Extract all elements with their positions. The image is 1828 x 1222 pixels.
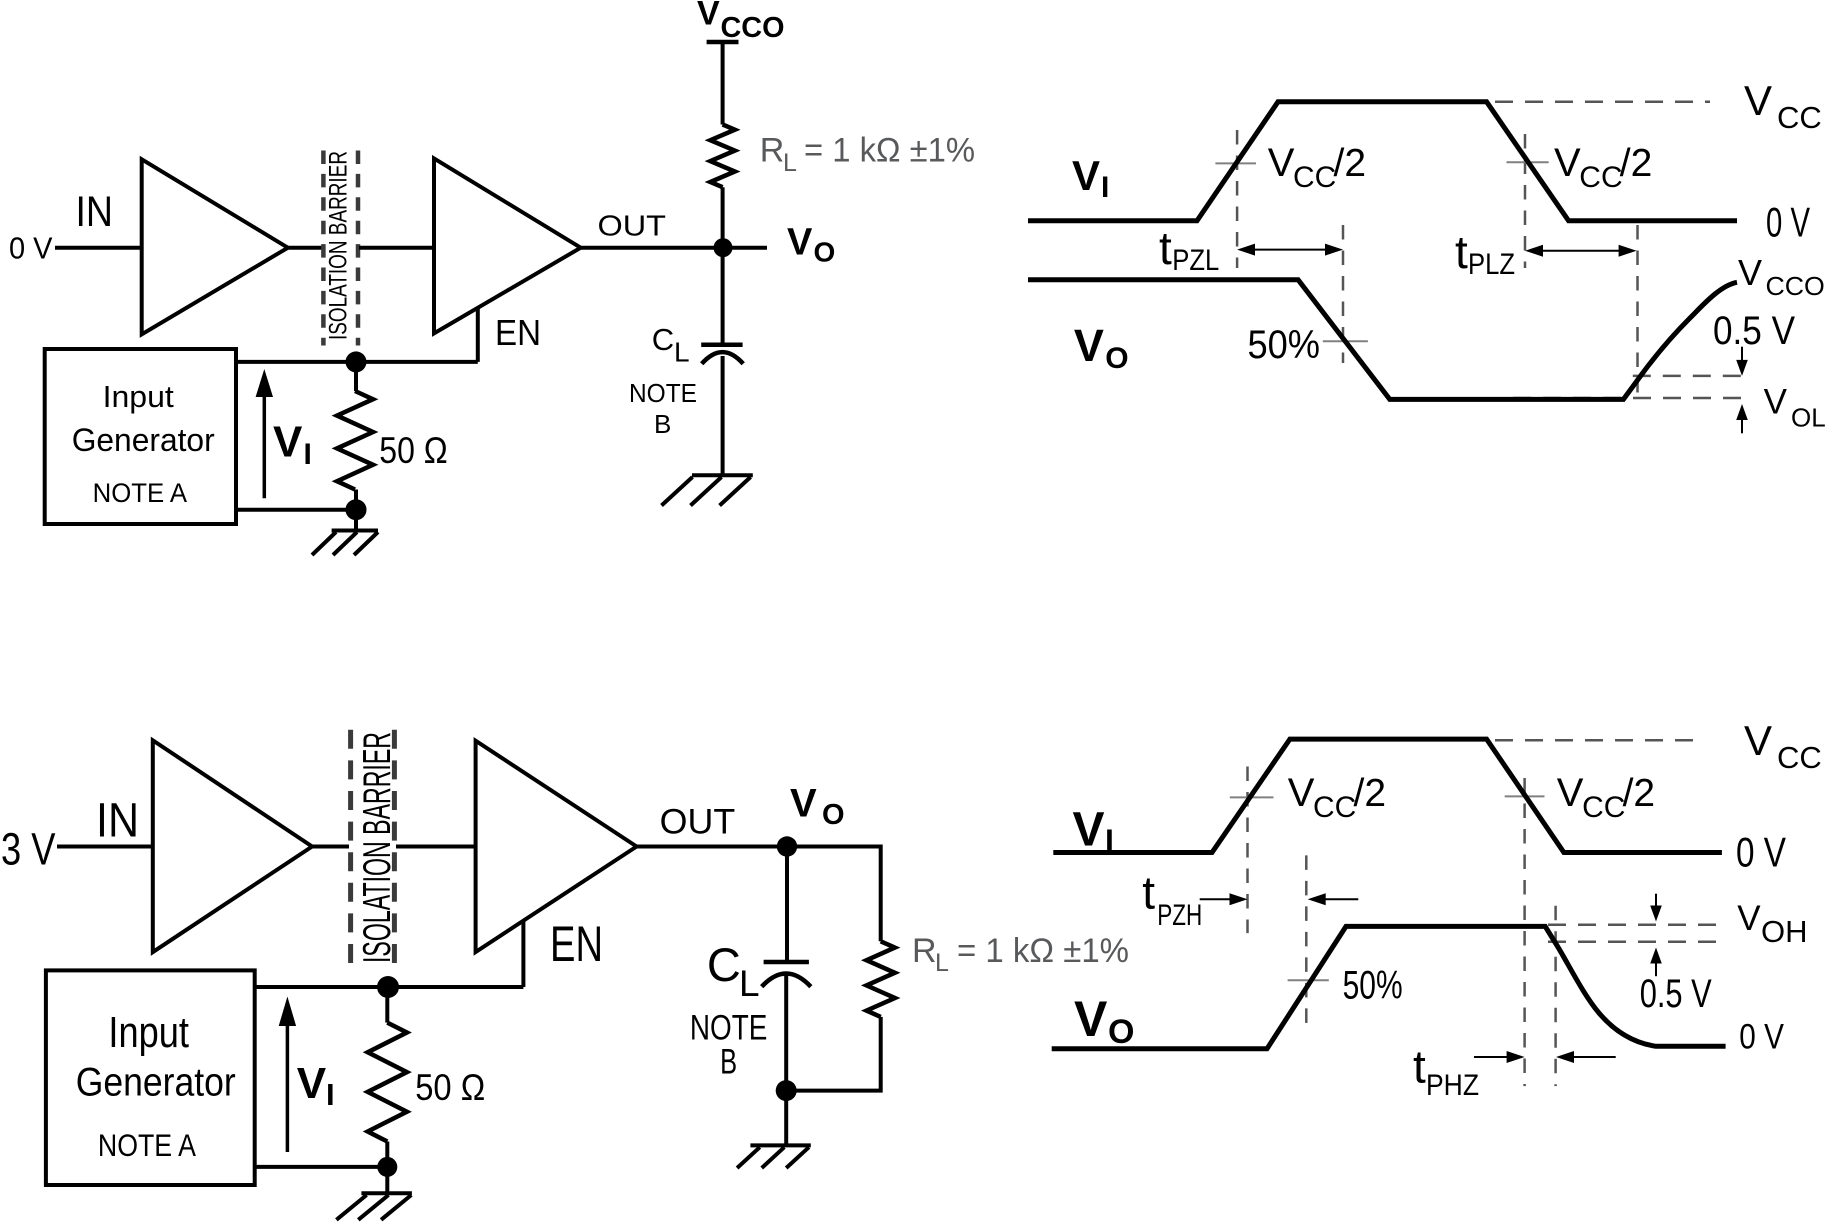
svg-text:V: V: [1268, 141, 1295, 185]
svg-text:CC: CC: [1293, 161, 1336, 194]
svg-text:B: B: [654, 409, 671, 439]
svg-text:O: O: [822, 799, 845, 831]
svg-text:PZL: PZL: [1172, 244, 1219, 277]
svg-text:/2: /2: [1334, 142, 1367, 185]
power symbol VCCO: [707, 40, 739, 45]
VI arrow: [286, 1020, 290, 1152]
tick VCC/2 falling (bottom): [1505, 795, 1545, 797]
svg-text:0.5 V: 0.5 V: [1640, 972, 1712, 1016]
pin EN stub of U2: [476, 308, 480, 362]
svg-text:IN: IN: [96, 795, 139, 848]
dashed vertical at VI falling VCC/2 (bottom): [1523, 778, 1526, 1086]
arrow VOL up (top): [1741, 414, 1743, 433]
dashed vertical at VI rising VCC/2 (top): [1236, 130, 1239, 268]
isolation barrier right dashed line: [392, 730, 397, 966]
junction dot ground node: [346, 499, 367, 520]
arrow tPZH right: [1200, 898, 1239, 900]
wire EN junction to 50 ohm resistor: [354, 362, 358, 391]
svg-text:C: C: [707, 938, 741, 991]
svg-text:CC: CC: [1313, 791, 1356, 824]
svg-text:R: R: [760, 132, 785, 170]
resistor RL (bottom circuit): [867, 941, 895, 1017]
tick 50% (top): [1323, 340, 1368, 342]
arrow 0.5V down (top): [1741, 347, 1743, 366]
arrow tPHZ left: [1565, 1056, 1616, 1058]
svg-text:CC: CC: [1579, 161, 1622, 194]
resistor 50 ohm (top circuit): [337, 391, 373, 490]
svg-text:PHZ: PHZ: [1426, 1069, 1479, 1102]
wire input 3V to buffer: [57, 845, 153, 849]
ground under CL: [662, 475, 753, 505]
svg-text:Input: Input: [103, 380, 175, 414]
svg-text:= 1 kΩ ±1%: = 1 kΩ ±1%: [804, 132, 975, 170]
dashed vertical at VO rising 50% (bottom): [1305, 855, 1308, 1025]
svg-text:V: V: [1072, 152, 1100, 199]
buffer U4: [476, 741, 637, 952]
capacitor CL top plate: [764, 960, 809, 965]
buffer U3: [153, 740, 312, 952]
dashed level line VOH-0.5V (bottom): [1548, 941, 1723, 944]
wire generator bottom to ground node: [255, 1165, 388, 1169]
wire ground node to ground: [385, 1167, 389, 1193]
pin EN stub of U4: [521, 921, 525, 987]
svg-text:OUT: OUT: [660, 803, 736, 842]
wire resistor RL to node VO: [721, 187, 725, 248]
wire bottom node to ground: [784, 1091, 788, 1146]
svg-text:V: V: [1074, 320, 1104, 371]
resistor RL (top circuit): [710, 125, 735, 188]
svg-text:O: O: [1105, 342, 1128, 375]
wire resistor RL to bottom node: [786, 1017, 881, 1091]
svg-text:50%: 50%: [1343, 964, 1403, 1008]
svg-text:/2: /2: [1623, 772, 1656, 815]
dashed vertical at VO rising end (top): [1636, 225, 1639, 399]
arrow tPZL double: [1247, 249, 1333, 251]
wire ground node to ground: [354, 510, 358, 531]
wire capacitor CL to ground: [721, 356, 725, 475]
junction dot EN node: [346, 351, 367, 372]
ground under 50 ohm (bottom circuit): [336, 1193, 412, 1220]
svg-text:OH: OH: [1761, 914, 1808, 949]
ground under 50 ohm: [312, 531, 378, 556]
svg-text:V: V: [1737, 899, 1761, 938]
svg-text:Input: Input: [108, 1009, 188, 1057]
wire U1 output to isolation barrier: [288, 246, 322, 250]
svg-text:t: t: [1413, 1041, 1426, 1093]
VI arrow: [263, 390, 267, 498]
svg-text:NOTE: NOTE: [629, 378, 697, 408]
tick VCC/2 falling (top): [1507, 161, 1549, 163]
svg-text:0 V: 0 V: [9, 230, 53, 265]
svg-text:V: V: [1073, 804, 1105, 857]
svg-text:CC: CC: [1777, 740, 1822, 775]
wire node VO down to capacitor CL: [785, 847, 789, 963]
wire EN junction to 50 ohm resistor: [385, 987, 389, 1023]
node VO junction dot: [714, 238, 733, 257]
svg-text:0 V: 0 V: [1739, 1017, 1784, 1056]
ground under CL (bottom circuit): [737, 1145, 811, 1168]
svg-text:/2: /2: [1354, 772, 1387, 815]
svg-text:V: V: [1764, 383, 1788, 422]
waveform VO trace (top): [1028, 280, 1737, 400]
arrow VOH-0.5V up (bottom): [1655, 958, 1657, 976]
svg-text:0 V: 0 V: [1736, 829, 1786, 876]
waveform VO trace (bottom): [1052, 926, 1726, 1048]
svg-text:I: I: [1105, 823, 1114, 859]
svg-text:CCO: CCO: [1766, 271, 1825, 301]
dashed level line VCC (bottom): [1495, 739, 1705, 742]
svg-text:V: V: [697, 0, 720, 33]
isolation barrier left dashed line: [348, 730, 353, 966]
wire 50 ohm resistor to ground node: [385, 1142, 389, 1167]
dashed level line 0.5V above VOL (top): [1633, 375, 1746, 378]
svg-text:V: V: [1074, 991, 1108, 1047]
junction dot bottom node: [776, 1080, 797, 1101]
svg-text:L: L: [783, 149, 797, 177]
svg-text:O: O: [814, 237, 836, 268]
junction dot ground node: [377, 1157, 397, 1177]
svg-text:L: L: [674, 337, 690, 368]
svg-text:V: V: [787, 222, 813, 264]
waveform VI trace (top): [1028, 102, 1737, 221]
dashed vertical at VO falling VOH-0.5V (bottom): [1554, 906, 1557, 1086]
input generator box: [45, 349, 236, 524]
svg-text:V: V: [1557, 771, 1584, 815]
buffer U1: [142, 159, 288, 334]
wire input 0V to buffer: [55, 246, 142, 250]
wire generator to EN junction: [255, 985, 524, 989]
wire generator bottom to ground node: [236, 508, 356, 512]
svg-text:V: V: [297, 1059, 327, 1108]
svg-text:I: I: [1101, 171, 1109, 204]
svg-text:V: V: [273, 418, 303, 467]
wire U3 output to isolation barrier: [312, 845, 349, 849]
svg-text:C: C: [652, 322, 674, 357]
svg-text:PLZ: PLZ: [1468, 248, 1515, 281]
svg-text:3 V: 3 V: [1, 824, 56, 875]
svg-text:V: V: [1738, 252, 1762, 293]
svg-text:0.5 V: 0.5 V: [1713, 309, 1795, 353]
svg-text:V: V: [1744, 717, 1772, 764]
wire U4 output to node VO: [637, 845, 881, 849]
svg-text:R: R: [912, 932, 937, 970]
svg-text:V: V: [1554, 141, 1581, 185]
junction dot EN node: [377, 976, 399, 998]
svg-text:PZH: PZH: [1157, 899, 1202, 932]
wire isolation barrier to buffer U4: [396, 845, 476, 849]
svg-text:50 Ω: 50 Ω: [415, 1067, 485, 1108]
node VO junction dot: [777, 836, 797, 856]
wire U2 output to node VO: [581, 246, 767, 250]
svg-text:V: V: [1744, 77, 1772, 124]
wire isolation barrier to buffer U2: [359, 246, 434, 250]
svg-text:EN: EN: [495, 312, 541, 353]
wire node VO right to resistor RL: [879, 845, 883, 942]
tick VCC/2 rising (bottom): [1230, 796, 1274, 798]
svg-text:V: V: [790, 782, 817, 826]
svg-text:ISOLATION BARRIER: ISOLATION BARRIER: [325, 151, 353, 340]
capacitor CL curved plate: [762, 974, 811, 987]
dashed level line VCC (top): [1495, 101, 1710, 104]
svg-text:Generator: Generator: [72, 422, 215, 458]
svg-text:IN: IN: [76, 188, 114, 236]
arrow tPZH left: [1317, 898, 1358, 900]
arrow tPHZ right: [1474, 1056, 1516, 1058]
capacitor CL curved plate: [702, 352, 744, 364]
svg-text:/2: /2: [1620, 142, 1653, 185]
svg-text:Generator: Generator: [76, 1060, 236, 1104]
svg-text:0 V: 0 V: [1766, 199, 1810, 246]
wire capacitor CL to bottom node: [784, 975, 788, 1091]
svg-text:I: I: [304, 438, 312, 471]
svg-text:CC: CC: [1582, 791, 1625, 824]
input generator box: [46, 970, 255, 1185]
svg-text:ISOLATION BARRIER: ISOLATION BARRIER: [356, 732, 399, 963]
isolation barrier left dashed line: [321, 151, 326, 346]
arrow VOH down (bottom): [1655, 894, 1657, 912]
buffer U2: [434, 158, 581, 333]
dashed vertical at VO falling 50% (top): [1342, 225, 1345, 363]
svg-text:t: t: [1455, 226, 1468, 278]
svg-text:B: B: [720, 1043, 737, 1082]
waveform VI trace (bottom): [1053, 739, 1722, 852]
tick VCC/2 rising (top): [1215, 162, 1256, 164]
svg-text:50%: 50%: [1248, 323, 1321, 367]
svg-text:CC: CC: [1777, 100, 1822, 135]
svg-text:V: V: [1288, 771, 1315, 815]
dashed level line VOH (bottom): [1548, 923, 1723, 926]
svg-text:NOTE A: NOTE A: [98, 1128, 196, 1163]
svg-text:CCO: CCO: [721, 12, 785, 44]
svg-text:OUT: OUT: [598, 211, 667, 243]
svg-text:L: L: [935, 949, 949, 977]
svg-text:I: I: [326, 1077, 335, 1112]
svg-text:= 1 kΩ ±1%: = 1 kΩ ±1%: [957, 932, 1129, 970]
wire 50 ohm resistor to bottom node: [354, 490, 358, 510]
dashed level line VOL (top): [1513, 397, 1746, 400]
svg-text:EN: EN: [550, 916, 603, 972]
dashed vertical at VI falling VCC/2 (top): [1524, 134, 1527, 268]
svg-text:NOTE A: NOTE A: [93, 478, 188, 508]
capacitor CL top plate: [701, 343, 742, 348]
svg-text:t: t: [1142, 867, 1155, 919]
resistor 50 ohm (bottom circuit): [368, 1023, 407, 1142]
wire VCCO to resistor RL: [721, 42, 725, 125]
arrow tPLZ double: [1535, 250, 1627, 252]
dashed vertical at VI rising VCC/2 (bottom): [1246, 767, 1249, 934]
svg-text:t: t: [1159, 222, 1172, 274]
svg-text:O: O: [1108, 1013, 1134, 1051]
tick 50% (bottom): [1288, 979, 1329, 981]
wire node VO to capacitor CL: [721, 248, 725, 345]
svg-text:50 Ω: 50 Ω: [379, 430, 447, 471]
svg-text:OL: OL: [1791, 403, 1826, 433]
svg-text:L: L: [739, 963, 760, 1004]
wire generator to EN junction: [236, 360, 478, 364]
isolation barrier right dashed line: [356, 151, 361, 346]
